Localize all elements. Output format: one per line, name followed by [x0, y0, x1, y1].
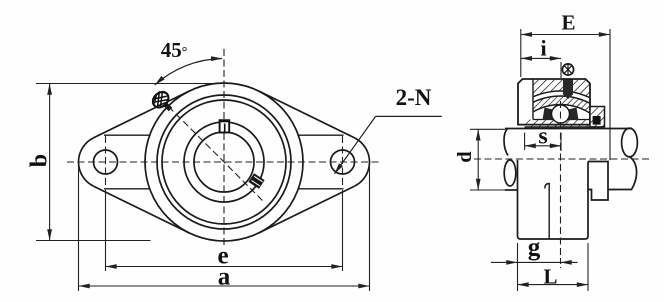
flange edge top-right: [259, 91, 355, 138]
dimension s: [525, 133, 561, 151]
dimension b: [36, 84, 212, 241]
shaft bottom edge left stub: [505, 189, 518, 191]
strip top line: [533, 119, 590, 121]
vertical centerline: [223, 49, 225, 248]
fillet line bottom-left: [104, 188, 150, 190]
dimension d: [470, 129, 505, 190]
svg-text:i: i: [540, 36, 546, 61]
fillet line top-right: [298, 134, 343, 136]
bolt slot line in block A: [545, 184, 549, 240]
shaft centerline: [474, 158, 649, 160]
svg-text:d: d: [454, 151, 476, 163]
housing hatched block: [533, 79, 590, 120]
45 deg annotation: [155, 38, 223, 85]
s dimension line: [525, 145, 561, 147]
shaft: [504, 128, 637, 190]
d dimension line: [477, 129, 479, 190]
seat line B1: [493, 91, 629, 227]
svg-text:E: E: [561, 11, 575, 35]
left lobe arc: [79, 138, 94, 187]
collar set screw: [593, 116, 601, 125]
right bolt hole: [331, 150, 355, 174]
b extension bottom: [36, 240, 151, 242]
horizontal centerline: [67, 161, 381, 163]
inner ring right shoulder: [568, 108, 579, 121]
b dimension line: [49, 84, 51, 241]
g arrow left: [491, 261, 518, 263]
inner ring bottom strip hatched: [525, 120, 605, 128]
flange edge bottom-left: [94, 186, 190, 233]
boss outer circle: [145, 83, 303, 241]
s tick left: [524, 133, 526, 150]
grease fitting (zerk): [150, 89, 172, 111]
grease zerk on top of housing: [562, 64, 573, 75]
dimension L: [518, 243, 589, 291]
raceway line B3: [506, 105, 615, 214]
white cavity inside R54.5: [506, 105, 615, 214]
dimension g: [491, 243, 578, 291]
svg-text:2-N: 2-N: [396, 85, 432, 110]
g arrow right: [561, 261, 578, 263]
center lines, left view: [67, 49, 381, 248]
shaft left end break: lens oval: [504, 160, 516, 186]
fillet line top-left: [104, 134, 150, 136]
g centerline tick: [560, 258, 562, 268]
inner ring collar right: [590, 107, 605, 128]
svg-text:s: s: [538, 124, 547, 150]
leader underline: [376, 115, 442, 117]
a extension left: [78, 166, 80, 291]
2-N annotation: [335, 85, 442, 174]
dimension a: [79, 166, 370, 291]
E dimension line: [521, 34, 610, 36]
dimension e: [106, 190, 343, 271]
g extension left (block A left extended): [517, 243, 519, 291]
bearing vertical dashed centerline: [560, 101, 562, 256]
45 deg diagonal centerline: [161, 99, 263, 201]
flange edge bottom-right: [259, 186, 355, 233]
boss step block B: [588, 162, 608, 201]
svg-text:g: g: [528, 234, 541, 261]
right lobe arc: [354, 138, 369, 187]
ball: [552, 105, 570, 123]
b extension top: [36, 83, 212, 85]
lower flange block A: [518, 160, 609, 239]
housing outline (with chamfered top corners): [518, 79, 590, 125]
svg-text:b: b: [27, 154, 53, 167]
set screw top (12 o'clock): [219, 120, 230, 132]
shaft left end break: top arc: [504, 129, 508, 156]
flange edge top-left: [94, 91, 190, 138]
e extension left: [105, 190, 107, 271]
a dimension line: [79, 285, 370, 287]
inner ring outer circle R40: [184, 122, 264, 202]
a extension right: [369, 166, 371, 291]
shaft top edge: [505, 128, 632, 130]
dimension i: [521, 58, 561, 78]
E extension left: [520, 29, 522, 77]
right hole vertical centerline: [342, 136, 344, 188]
outer ring section band (denser hatch): [498, 96, 624, 159]
svg-text:a: a: [218, 264, 231, 291]
shaft right end break: bottom arc: [629, 157, 637, 190]
L dimension line: [518, 284, 589, 286]
dimension E: [521, 29, 610, 160]
leader arrow to bolt hole: [335, 116, 376, 173]
bore circle R30: [194, 132, 254, 192]
svg-text:L: L: [543, 265, 557, 289]
g span line: [518, 261, 561, 263]
fillet line bottom-right: [298, 188, 343, 190]
set screw at 45 (lower right): [248, 173, 264, 189]
shaft bottom edge right: [608, 189, 632, 191]
inner ring left shoulder: [543, 108, 554, 121]
e extension right: [342, 190, 344, 271]
zerk shank hole (dark): [563, 79, 573, 95]
flange plate inner edge: [532, 79, 534, 120]
seat line B2: [498, 96, 624, 222]
d extension top: [470, 128, 505, 130]
E extension right: [609, 29, 611, 160]
i extension right: [560, 62, 562, 78]
angle arc with arrows: [155, 59, 223, 86]
housing circle R67: [157, 95, 291, 229]
d extension bottom: [470, 189, 505, 191]
i dimension line: [521, 57, 561, 59]
bearing housing section: [493, 79, 629, 227]
zerk stem: [164, 103, 171, 110]
s tick right: [560, 133, 562, 151]
e dimension line: [106, 266, 343, 268]
outer ring circle R62: [162, 100, 286, 224]
left bolt hole: [94, 150, 118, 174]
left hole vertical centerline: [105, 136, 107, 188]
shaft right end break: lens oval: [622, 128, 638, 157]
L extension right (block A right extended): [587, 243, 589, 291]
bottom strip bottom line: [525, 126, 605, 128]
